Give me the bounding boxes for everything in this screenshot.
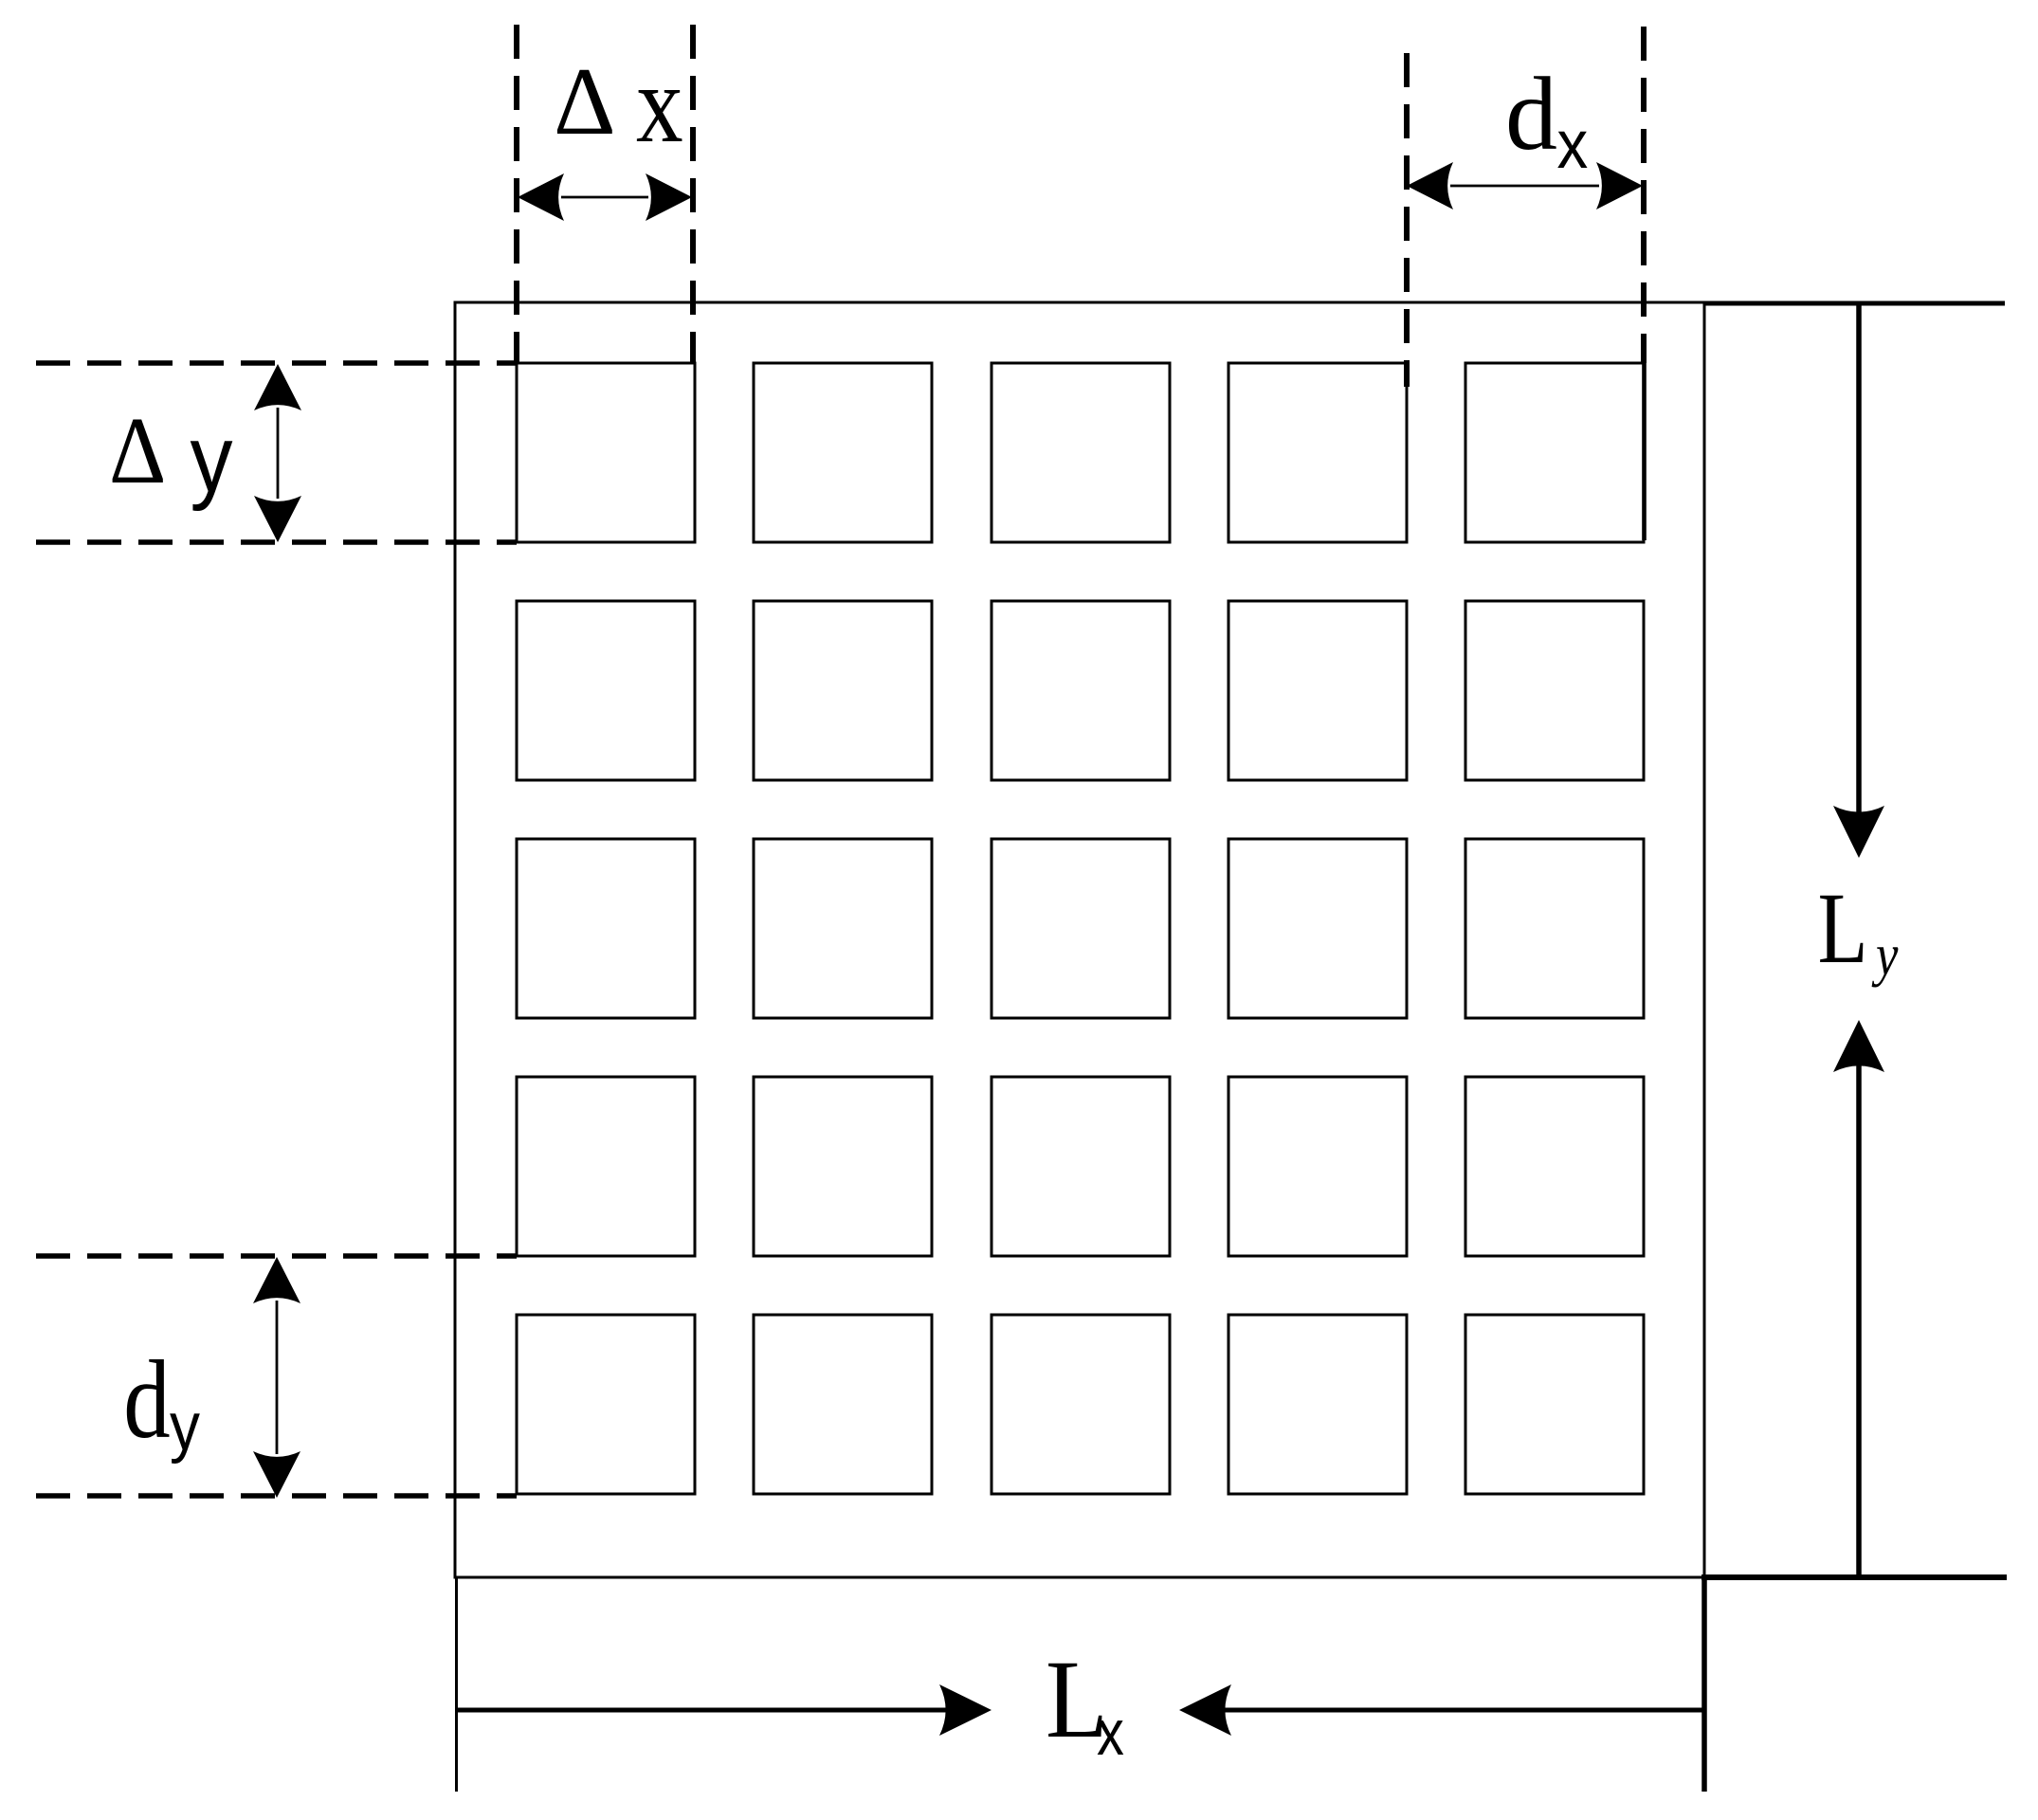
svg-text:x: x [1097,1698,1124,1769]
svg-text:Δ: Δ [554,48,616,155]
svg-text:d: d [123,1338,170,1462]
svg-text:y: y [1871,923,1898,988]
svg-text:y: y [191,407,233,512]
svg-text:Δ: Δ [109,398,166,504]
svg-text:d: d [1505,56,1557,172]
svg-text:L: L [1818,872,1868,985]
svg-text:y: y [170,1390,200,1465]
svg-text:x: x [1557,106,1589,183]
svg-text:x: x [636,42,683,166]
